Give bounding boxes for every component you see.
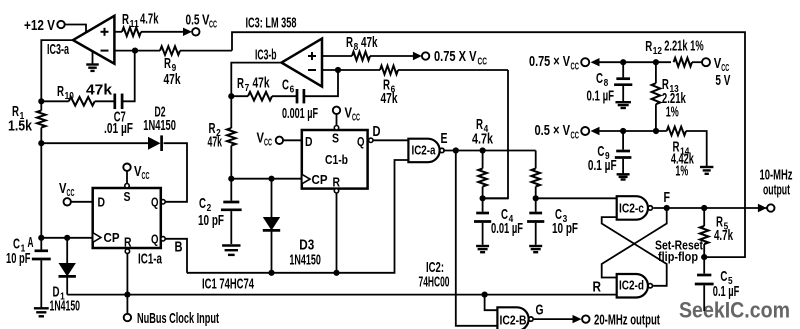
nand gate IC2-a	[408, 139, 444, 163]
svg-text:.01 µF: .01 µF	[104, 120, 133, 137]
svg-text:V: V	[59, 180, 67, 197]
resistor R12 2.21k 1%	[645, 38, 704, 67]
resistor R5 4.7k	[700, 208, 734, 260]
svg-text:D: D	[98, 195, 106, 210]
diode D3 1N4150	[263, 176, 321, 273]
resistor E to C3 node	[531, 151, 540, 202]
ground C9	[617, 174, 630, 179]
svg-text:8: 8	[354, 42, 359, 53]
label IC1 74HC74	[202, 276, 254, 293]
svg-text:IC3-a: IC3-a	[47, 41, 69, 58]
wire IC1-a R pin	[125, 249, 129, 314]
svg-text:20-MHz output: 20-MHz output	[594, 312, 660, 329]
svg-text:2.21k 1%: 2.21k 1%	[664, 38, 704, 55]
svg-text:11: 11	[130, 19, 140, 30]
svg-text:CP: CP	[312, 172, 328, 187]
svg-text:10 pF: 10 pF	[6, 250, 31, 267]
svg-text:0.5: 0.5	[186, 12, 200, 29]
capacitor C5 0.1uF	[695, 257, 740, 311]
wire G output	[534, 302, 573, 320]
label IC2: 74HC00	[419, 259, 450, 291]
svg-text:SeekIC.com: SeekIC.com	[679, 298, 790, 323]
terminal 0.5 Vcc	[183, 12, 217, 37]
resistor R9 47k	[160, 46, 232, 88]
resistor R8 47k	[322, 34, 413, 60]
svg-text:C1-b: C1-b	[325, 152, 348, 167]
wire IC1-a Q-bottom node B	[161, 237, 187, 273]
svg-text:CP: CP	[104, 230, 120, 245]
terminal 0.75 x Vcc divider	[529, 53, 671, 73]
svg-text:1N4150: 1N4150	[50, 298, 81, 315]
label Set-Reset flip-flop	[655, 238, 704, 265]
terminal Vcc at C1-b D	[257, 130, 302, 149]
svg-text:0.1 µF: 0.1 µF	[713, 283, 740, 300]
svg-text:R: R	[57, 83, 64, 100]
wire C1-b Q to IC2-a node D	[369, 123, 409, 143]
wire D2 to IC1-a Q	[161, 143, 187, 204]
svg-text:R: R	[124, 235, 132, 250]
svg-text:10: 10	[65, 91, 75, 102]
svg-text:R: R	[645, 38, 652, 55]
wire to IC2-B top input	[485, 295, 498, 311]
svg-text:4.7k: 4.7k	[714, 227, 733, 244]
node D2 line junction	[38, 140, 44, 146]
svg-text:47k: 47k	[208, 134, 223, 151]
wire IC3-a output to left node	[41, 40, 73, 101]
wire R6 down to R4 node	[483, 70, 508, 198]
svg-text:B: B	[175, 239, 183, 256]
wire 0.5Vcc feedback top rail	[232, 32, 745, 257]
svg-text:CC: CC	[142, 171, 150, 182]
svg-text:12: 12	[653, 46, 663, 57]
svg-text:Q: Q	[357, 134, 365, 149]
svg-text:V: V	[134, 163, 142, 180]
op-amp IC3-b	[255, 39, 322, 87]
ground C8	[615, 102, 631, 108]
svg-text:R: R	[593, 279, 602, 296]
wire IC3-b inverting input	[322, 67, 380, 73]
svg-text:1N4150: 1N4150	[143, 117, 176, 134]
svg-text:CC: CC	[352, 113, 360, 124]
svg-text:IC1-a: IC1-a	[138, 251, 162, 268]
svg-text:S: S	[332, 131, 339, 146]
node A and C1 cap	[6, 143, 44, 267]
svg-text:0.75 X V: 0.75 X V	[434, 48, 477, 65]
svg-text:S: S	[124, 189, 131, 204]
svg-text:Q: Q	[151, 195, 159, 210]
capacitor C9 0.1uF	[588, 128, 632, 174]
node F and output wire	[653, 189, 766, 211]
svg-text:IC2-a: IC2-a	[412, 143, 437, 158]
terminal Vcc 5V	[702, 55, 730, 89]
svg-text:NuBus Clock Input: NuBus Clock Input	[137, 310, 219, 327]
svg-text:C: C	[596, 70, 603, 87]
watermark SeekIC.com	[679, 298, 790, 323]
svg-text:IC3: LM 358: IC3: LM 358	[246, 15, 297, 32]
resistor R4 4.7k	[472, 116, 508, 201]
wire B line to IC2-a input	[187, 160, 408, 276]
terminal 10-MHz output	[758, 167, 793, 213]
svg-text:C: C	[282, 77, 289, 94]
capacitor C6 0.001uF	[282, 70, 338, 122]
wire E vertical to bottom rail	[456, 151, 498, 326]
svg-text:1N4150: 1N4150	[289, 251, 321, 268]
svg-text:CC: CC	[571, 62, 580, 73]
terminal Vcc above IC1-a S	[123, 163, 149, 188]
svg-text:0.1 µF: 0.1 µF	[587, 87, 615, 104]
svg-text:5 V: 5 V	[715, 72, 730, 89]
svg-text:IC2-B: IC2-B	[500, 313, 527, 328]
svg-text:V: V	[714, 55, 722, 72]
ground IC3-a	[86, 51, 99, 71]
svg-text:47k: 47k	[86, 82, 113, 99]
terminal 0.5 x Vcc divider	[535, 122, 667, 142]
terminal +12 V	[24, 17, 65, 34]
svg-text:F: F	[664, 189, 671, 206]
terminal 20-MHz output	[573, 312, 661, 329]
nand gate IC2-B	[497, 307, 533, 329]
ground C3	[529, 246, 542, 252]
svg-text:0.5 × V: 0.5 × V	[535, 122, 571, 139]
wire C1-b R to B line	[333, 189, 339, 276]
svg-text:CC: CC	[571, 131, 580, 142]
svg-text:IC3-b: IC3-b	[255, 47, 277, 64]
svg-text:1.5k: 1.5k	[8, 118, 33, 135]
svg-text:1%: 1%	[666, 104, 679, 121]
svg-text:D: D	[373, 123, 381, 140]
ground C1	[34, 308, 49, 316]
svg-text:V: V	[257, 130, 265, 147]
svg-text:IC2-c: IC2-c	[619, 201, 644, 216]
resistor R13 2.21k 1%	[652, 62, 687, 131]
svg-text:+12 V: +12 V	[24, 17, 55, 34]
wire C1-b CP line	[228, 176, 302, 182]
svg-text:CC: CC	[478, 57, 488, 68]
nand gate IC2-d	[617, 274, 653, 298]
resistor R10 47k	[38, 82, 115, 106]
svg-text:CC: CC	[264, 138, 272, 149]
wire cross coupling F to IC2-d	[602, 208, 667, 278]
wire +12V to IC3-a V+	[65, 25, 87, 35]
capacitor C2 10pF	[198, 179, 242, 244]
label IC3: LM 358	[246, 15, 297, 32]
terminal 0.75 X Vcc	[413, 48, 487, 68]
wire E node	[441, 130, 536, 154]
svg-text:G: G	[536, 302, 544, 319]
terminal NuBus Clock Input	[124, 310, 219, 327]
capacitor C8 0.1uF	[587, 59, 633, 104]
resistor R14 4.42k 1%	[653, 127, 707, 180]
wire R rail NuBus to IC2-d	[67, 292, 617, 298]
svg-text:4.7k: 4.7k	[472, 131, 493, 148]
nand gate IC2-c	[617, 196, 653, 220]
svg-text:V: V	[345, 105, 353, 122]
wire A node to IC1-a CP	[41, 235, 92, 241]
resistor R11 4.7k	[114, 11, 186, 37]
flip-flop IC1-a 74HC74	[93, 188, 163, 268]
svg-text:0.75 × V: 0.75 × V	[529, 53, 570, 70]
svg-text:D: D	[305, 134, 313, 149]
svg-text:10 pF: 10 pF	[552, 220, 578, 237]
svg-text:47k: 47k	[253, 75, 270, 92]
svg-text:R: R	[164, 55, 171, 72]
op-amp IC3-a	[47, 16, 114, 64]
svg-text:47k: 47k	[164, 71, 181, 88]
diode D2 1N4150	[143, 103, 176, 151]
svg-text:0.001 µF: 0.001 µF	[282, 105, 318, 122]
capacitor C3 10pF	[527, 198, 578, 245]
ground C2	[222, 246, 240, 255]
svg-text:CC: CC	[209, 20, 217, 31]
svg-text:R: R	[333, 175, 341, 190]
svg-text:0.1 µF: 0.1 µF	[588, 157, 617, 174]
resistor R6 47k	[380, 66, 508, 107]
svg-text:flip-flop: flip-flop	[658, 249, 698, 264]
flip-flop C1-b 74HC74	[302, 130, 368, 190]
svg-text:4.7k: 4.7k	[140, 11, 159, 28]
svg-text:R: R	[122, 11, 129, 28]
terminal Vcc above C1-b S	[333, 105, 360, 130]
capacitor C7 .01uF	[104, 51, 135, 137]
svg-text:E: E	[441, 130, 448, 147]
svg-text:IC2-d: IC2-d	[619, 278, 644, 293]
svg-text:IC1 74HC74: IC1 74HC74	[202, 276, 254, 293]
svg-text:1%: 1%	[675, 163, 688, 180]
svg-text:R: R	[346, 34, 353, 51]
wire cross coupling IC2-d out to IC2-c	[602, 217, 667, 286]
ground R14	[700, 167, 713, 174]
svg-text:7: 7	[245, 83, 250, 94]
svg-text:74HC00: 74HC00	[419, 274, 450, 291]
svg-text:output: output	[763, 182, 790, 199]
wire IC3-b output to left vertical	[231, 63, 281, 97]
wire C3 node to IC2-c input	[536, 197, 617, 199]
svg-text:R: R	[237, 75, 244, 92]
terminal Vcc at IC1-a D	[59, 180, 93, 206]
svg-text:A: A	[28, 234, 34, 251]
resistor R2 47k	[208, 96, 236, 179]
label R input	[593, 279, 602, 296]
svg-text:6: 6	[290, 85, 295, 96]
capacitor C1 10pF	[32, 238, 51, 308]
ground C4	[476, 246, 489, 252]
svg-text:Q: Q	[151, 232, 159, 247]
svg-text:47k: 47k	[361, 34, 378, 51]
svg-text:10 pF: 10 pF	[198, 212, 224, 229]
resistor R7 47k	[228, 75, 297, 101]
svg-text:47k: 47k	[381, 90, 398, 107]
svg-text:CC: CC	[67, 188, 75, 199]
capacitor C4 0.01uF	[474, 198, 523, 245]
svg-text:C: C	[199, 195, 206, 212]
svg-text:0.01 µF: 0.01 µF	[491, 220, 523, 237]
wire IC3-a inverting input	[114, 48, 160, 54]
resistor R1 1.5k	[8, 101, 46, 143]
wire node to D2	[41, 142, 148, 144]
diode D1 1N4150	[50, 238, 81, 315]
